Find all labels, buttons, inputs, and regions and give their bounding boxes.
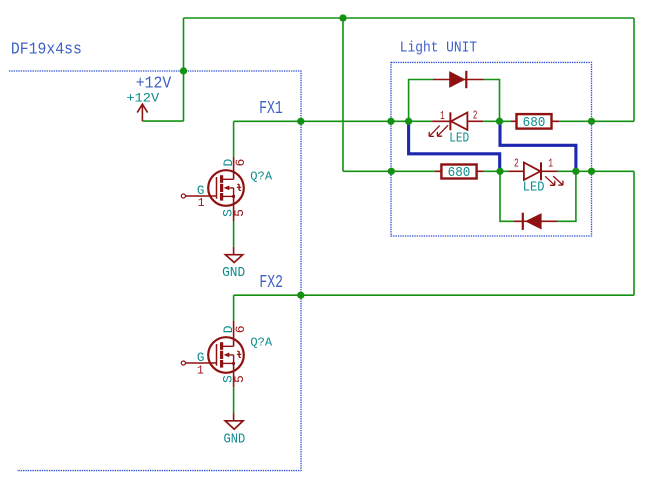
- junction FX1 / D1 branch / bus A: [405, 118, 412, 125]
- svg-text:1: 1: [548, 157, 553, 170]
- junction LED2 row at Light UNIT right edge: [588, 168, 595, 175]
- junction +12V sheet pin: [180, 67, 187, 74]
- wire diode D1 loop: [409, 80, 500, 122]
- wire +12V horizontal: [142, 120, 183, 122]
- svg-text:G: G: [197, 351, 205, 365]
- resistor R2 680: [435, 165, 484, 182]
- svg-text:GND: GND: [224, 432, 246, 448]
- svg-text:Q?A: Q?A: [250, 170, 273, 184]
- wire Q2 drain riser: [233, 295, 235, 321]
- svg-text:LED: LED: [449, 130, 469, 146]
- junction FX1 sheet pin: [297, 118, 304, 125]
- diode D4 (filled, pointing left): [514, 213, 557, 230]
- svg-text:GND: GND: [222, 265, 245, 281]
- wire +12V riser: [183, 18, 185, 121]
- svg-text:+12V: +12V: [136, 74, 172, 93]
- svg-text:FX1: FX1: [259, 98, 283, 119]
- svg-text:680: 680: [523, 115, 546, 131]
- wire Q1 drain riser: [233, 121, 235, 157]
- svg-text:+12V: +12V: [126, 91, 159, 105]
- svg-text:FX2: FX2: [259, 272, 283, 293]
- wire FX1 row: [234, 120, 634, 122]
- wire mid drop from top rail: [342, 18, 344, 171]
- svg-text:DF19x4ss: DF19x4ss: [11, 39, 82, 58]
- diode D1 (filled, pointing right): [433, 71, 484, 88]
- svg-text:1: 1: [440, 110, 445, 123]
- ground GND2: [224, 413, 246, 447]
- svg-text:5: 5: [232, 209, 247, 217]
- junction LED2 row / D4 branch / bus A: [496, 168, 503, 175]
- power +12V symbol: [137, 104, 147, 121]
- wire right drop to FX2 row: [633, 171, 635, 295]
- svg-text:2: 2: [514, 157, 519, 170]
- svg-text:1: 1: [198, 197, 205, 210]
- svg-text:Q?A: Q?A: [250, 336, 273, 350]
- svg-text:6: 6: [233, 325, 248, 333]
- junction FX1 / D1 return / bus B: [496, 118, 503, 125]
- svg-text:680: 680: [448, 165, 471, 181]
- svg-text:6: 6: [233, 159, 248, 167]
- bus wire B (FX1 to LED2 crossover): [500, 121, 576, 171]
- ground GND1: [222, 247, 245, 281]
- sheet box Light UNIT: [391, 62, 592, 236]
- svg-text:5: 5: [232, 375, 247, 383]
- wire FX2 row: [234, 294, 634, 296]
- wire right drop to FX1 row: [633, 18, 635, 121]
- transistor Q1 (Q?A): [181, 158, 243, 222]
- wire LED2 row: [343, 170, 634, 172]
- svg-text:G: G: [197, 184, 205, 198]
- svg-text:LED: LED: [523, 180, 545, 196]
- junction FX1 at Light UNIT left edge: [387, 118, 394, 125]
- junction top rail / mid drop: [339, 14, 346, 21]
- wire Q1 source to GND: [233, 221, 235, 247]
- svg-text:1: 1: [197, 364, 204, 377]
- svg-text:2: 2: [473, 109, 478, 122]
- wire diode D2 loop: [500, 171, 576, 221]
- junction FX2 sheet pin: [297, 292, 304, 299]
- LED D3 (open, pointing right): [508, 162, 563, 185]
- junction LED2 row / D4 return / bus B: [572, 168, 579, 175]
- LED D2 (open, pointing left): [429, 112, 483, 136]
- wire Q2 source to GND: [233, 387, 235, 413]
- svg-text:Light UNIT: Light UNIT: [400, 40, 477, 57]
- junction LED2 row at Light UNIT left edge: [388, 168, 395, 175]
- junction FX1 at Light UNIT right edge: [588, 118, 595, 125]
- resistor R1 680: [511, 114, 559, 131]
- transistor Q2 (Q?A): [181, 321, 243, 388]
- sheet box DF19x4ss: [9, 71, 301, 471]
- bus wire A (LED1 to LED2 crossover): [409, 121, 500, 171]
- wire top rail: [184, 17, 635, 19]
